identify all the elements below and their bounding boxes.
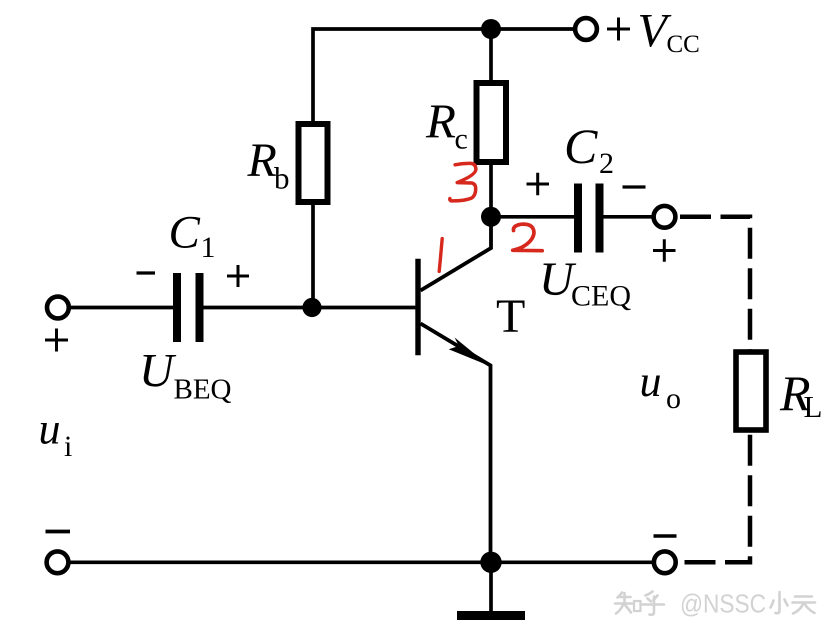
wire C2 right plate to output terminal xyxy=(604,215,653,219)
node emitter-ground junction xyxy=(480,552,501,573)
label u_o xyxy=(640,357,682,415)
svg-text:CC: CC xyxy=(667,31,700,58)
minus sign left of C1 xyxy=(137,271,156,274)
capacitor C2 xyxy=(574,184,604,253)
capacitor C1 xyxy=(173,273,204,342)
transistor T bar xyxy=(415,259,420,356)
terminal bottom-left circle xyxy=(47,551,69,573)
svg-text:R: R xyxy=(247,134,277,187)
label RL xyxy=(779,365,822,424)
svg-text:1: 1 xyxy=(201,231,216,264)
plus sign before C2 xyxy=(527,173,550,196)
label C1 xyxy=(169,207,216,265)
node base junction xyxy=(302,298,321,317)
resistor RL xyxy=(736,352,766,430)
wire C1 right plate to base xyxy=(204,306,418,310)
red annotation 3 xyxy=(450,163,476,201)
terminal output circle xyxy=(654,206,676,228)
svg-text:@NSSC: @NSSC xyxy=(680,589,766,619)
svg-text:u: u xyxy=(39,405,61,454)
wire Rb bottom to base node xyxy=(311,202,315,308)
label C2 xyxy=(564,118,614,180)
wire input to C1 left plate xyxy=(71,306,173,310)
watermark xyxy=(615,592,815,615)
svg-text:C: C xyxy=(564,118,598,174)
node collector junction xyxy=(481,207,501,227)
minus sign above bottom-right terminal xyxy=(654,534,677,537)
resistor Rb xyxy=(299,124,328,202)
svg-text:C: C xyxy=(169,207,201,259)
wire Rc top xyxy=(489,29,493,83)
label U_BEQ xyxy=(139,345,232,406)
svg-text:L: L xyxy=(804,389,823,424)
label Rc xyxy=(425,94,468,156)
red annotation 1 xyxy=(439,239,442,272)
plus sign right of C1 xyxy=(227,265,249,287)
transistor emitter arrow xyxy=(449,338,489,366)
label Rb xyxy=(247,134,290,196)
label u_i xyxy=(39,405,73,464)
node top junction xyxy=(481,19,501,39)
wire dashed top: output to RL xyxy=(680,217,750,352)
svg-text:b: b xyxy=(274,161,290,196)
svg-text:o: o xyxy=(666,382,681,415)
svg-text:R: R xyxy=(425,94,456,149)
svg-text:i: i xyxy=(64,430,72,463)
svg-text:2: 2 xyxy=(599,147,614,180)
wire collector node to C2 left plate xyxy=(491,215,574,219)
svg-text:T: T xyxy=(496,290,525,343)
terminal bottom-right circle xyxy=(654,551,676,573)
label +Vcc xyxy=(607,5,700,59)
svg-text:BEQ: BEQ xyxy=(174,374,232,406)
svg-text:U: U xyxy=(139,345,177,398)
plus sign below input terminal xyxy=(45,329,68,352)
wire dashed bottom: RL to bottom terminal xyxy=(685,430,751,562)
transistor T emitter lead xyxy=(421,324,491,563)
wire bottom rail xyxy=(71,560,653,564)
wire Rc bottom to collector node xyxy=(489,162,493,217)
plus sign below output terminal xyxy=(653,239,676,261)
minus sign above bottom-left terminal xyxy=(46,530,71,534)
svg-text:CEQ: CEQ xyxy=(571,280,631,313)
resistor Rc xyxy=(477,83,507,162)
terminal +Vcc circle xyxy=(575,18,597,40)
ground xyxy=(457,562,525,615)
terminal input circle xyxy=(47,297,69,319)
transistor T collector lead xyxy=(421,222,492,291)
minus sign after C2 xyxy=(623,185,646,188)
wire top rail from Rb corner to Vcc terminal xyxy=(313,29,573,124)
label U_CEQ xyxy=(539,253,631,313)
svg-text:u: u xyxy=(640,357,662,406)
svg-text:c: c xyxy=(455,123,468,156)
red annotation 2 xyxy=(513,224,543,251)
